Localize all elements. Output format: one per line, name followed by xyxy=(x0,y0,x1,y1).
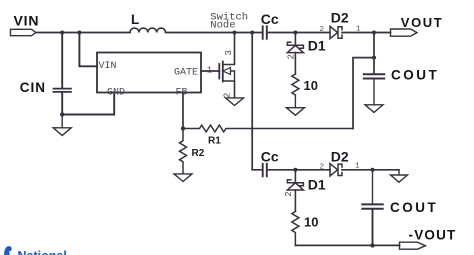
wire GATE to Q1 xyxy=(201,70,219,72)
wire IC GND pin xyxy=(62,93,114,115)
ground right of D2 bottom xyxy=(391,170,408,182)
svg-text:2: 2 xyxy=(287,54,297,59)
logo swoosh (partial, bottom-left) xyxy=(4,246,12,255)
op-amp/IC U1 box xyxy=(97,53,201,93)
svg-text:COUT: COUT xyxy=(390,200,438,215)
svg-text:L: L xyxy=(131,12,139,27)
resistor 10 (top) xyxy=(292,74,299,95)
svg-text:10: 10 xyxy=(304,215,318,230)
wire VOUT down to COUT xyxy=(373,33,375,74)
svg-text:3: 3 xyxy=(224,50,234,55)
node junction VIN/IC xyxy=(77,31,81,35)
node junction feedback tap xyxy=(372,56,376,60)
inductor L xyxy=(130,28,166,32)
svg-text:Cc: Cc xyxy=(261,11,279,27)
svg-text:GATE: GATE xyxy=(174,68,198,79)
capacitor COUT (bottom) xyxy=(362,170,382,246)
diode D1 zener (top) xyxy=(287,33,303,75)
wire switch-node rail (VIN to L) xyxy=(36,32,130,34)
node junction COUT bottom top xyxy=(371,168,375,172)
wire Cc to D1/D2 xyxy=(267,32,330,34)
svg-text:GND: GND xyxy=(107,88,125,99)
capacitor COUT (top) xyxy=(364,74,384,104)
svg-text:National: National xyxy=(18,249,67,255)
svg-text:COUT: COUT xyxy=(391,68,439,83)
node junction D1 top xyxy=(293,31,297,35)
svg-text:-VOUT: -VOUT xyxy=(409,227,457,242)
ground below CIN xyxy=(53,115,71,136)
node junction COUT bottom / rail xyxy=(370,243,374,247)
svg-text:10: 10 xyxy=(304,78,318,93)
capacitor Cc (bottom) xyxy=(263,164,267,177)
node junction VOUT xyxy=(372,31,376,35)
svg-text:D1: D1 xyxy=(308,38,326,54)
diode D1 zener (bottom) xyxy=(287,170,303,212)
diode D2 schottky (top) xyxy=(330,26,342,38)
svg-text:D1: D1 xyxy=(308,177,326,193)
transistor Q1 NMOS xyxy=(219,33,234,98)
resistor R2 xyxy=(180,129,187,174)
wire lower Cc to D1/D2 xyxy=(267,169,330,171)
wire FB node to R1 xyxy=(182,93,184,129)
svg-text:Node: Node xyxy=(210,19,235,31)
svg-text:2: 2 xyxy=(284,191,294,196)
node junction CIN/GND xyxy=(60,112,64,116)
connector -VOUT flag xyxy=(400,242,426,249)
node junction VIN/CIN xyxy=(60,31,64,35)
wire feedback: VOUT tap to R1 xyxy=(353,58,374,129)
svg-text:D2: D2 xyxy=(331,149,349,165)
ground below 10 top xyxy=(286,95,304,115)
node junction FB/R1/R2 xyxy=(181,126,185,130)
capacitor Cc (top) xyxy=(263,26,267,39)
svg-text:2: 2 xyxy=(223,93,233,98)
capacitor CIN xyxy=(54,33,71,115)
wire switch node down to lower Cc xyxy=(252,33,262,170)
wire IC VIN pin xyxy=(79,33,97,67)
svg-text:VIN: VIN xyxy=(99,61,117,72)
ground below Q1 source xyxy=(226,98,244,106)
svg-text:D2: D2 xyxy=(331,10,349,26)
wire D2 to VOUT xyxy=(342,32,391,34)
wire switch-node rail (L to Cc) xyxy=(166,32,263,34)
wire D2 bottom to ground xyxy=(342,169,399,171)
svg-text:2: 2 xyxy=(320,163,325,171)
connector VIN flag xyxy=(11,29,36,35)
svg-text:CIN: CIN xyxy=(20,80,46,95)
svg-text:VOUT: VOUT xyxy=(401,15,444,30)
connector VOUT flag xyxy=(391,29,418,36)
svg-text:Cc: Cc xyxy=(261,149,279,165)
svg-text:FB: FB xyxy=(176,87,188,98)
node junction D1 bottom xyxy=(293,168,297,172)
resistor 10 (bottom) xyxy=(292,212,299,246)
resistor R1 xyxy=(183,125,353,132)
diode D2 schottky (bottom) xyxy=(330,164,342,176)
ground below COUT top xyxy=(365,105,383,113)
ground below R2 xyxy=(174,174,192,182)
wire -VOUT rail xyxy=(295,244,399,246)
svg-text:R2: R2 xyxy=(192,148,205,159)
node junction Q1 drain xyxy=(233,31,237,35)
svg-text:2: 2 xyxy=(320,26,325,34)
svg-text:VIN: VIN xyxy=(14,13,40,29)
node junction switch/lower Cc xyxy=(250,31,254,35)
svg-text:R1: R1 xyxy=(208,136,221,147)
